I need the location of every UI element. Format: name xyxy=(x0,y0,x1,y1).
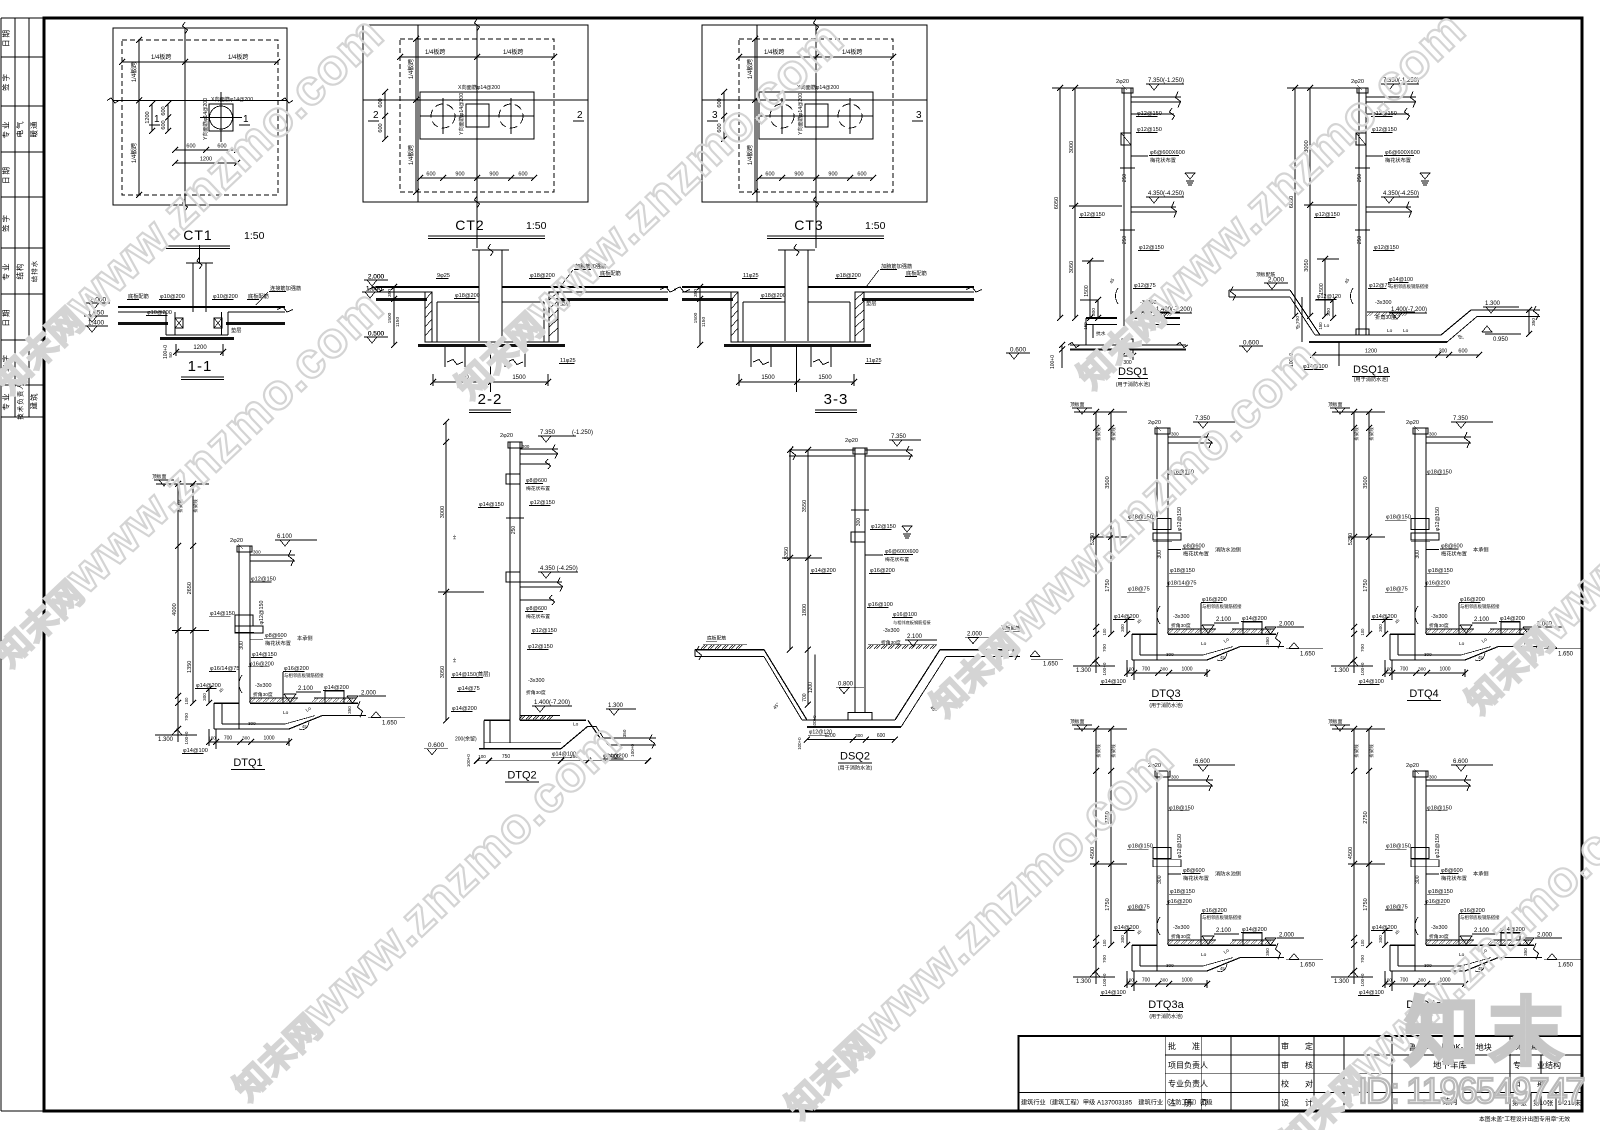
watermark band 2 xyxy=(439,10,854,408)
DTQ3 stepped bottom xyxy=(1207,647,1240,660)
DTQ4 level 1.300 left xyxy=(1331,665,1373,667)
CT3 pile circles xyxy=(770,104,794,128)
svg-text:φ14@150(首层): φ14@150(首层) xyxy=(452,670,491,678)
watermark band 9 xyxy=(1449,325,1600,723)
section 3-3 level marks xyxy=(364,279,388,281)
svg-text:100: 100 xyxy=(1384,978,1392,983)
svg-text:2.100: 2.100 xyxy=(1216,617,1232,623)
svg-text:2750: 2750 xyxy=(1363,811,1369,823)
svg-text:给排水: 给排水 xyxy=(30,260,39,283)
DTQ3a 300 marker xyxy=(1153,866,1172,868)
left revision strip table xyxy=(1,17,44,19)
DTQ4a footing left wall xyxy=(1389,945,1391,971)
svg-text:100+0: 100+0 xyxy=(184,731,189,744)
section 3-3 pile stubs xyxy=(750,347,752,367)
svg-text:2φ20: 2φ20 xyxy=(500,433,513,439)
svg-text:100: 100 xyxy=(478,754,486,759)
svg-text:300: 300 xyxy=(1415,550,1421,559)
svg-text:φ18@150: φ18@150 xyxy=(1428,889,1453,895)
DSQ1a left slope xyxy=(1290,290,1320,335)
section 3-3 pit walls hatched xyxy=(731,292,738,342)
svg-text:4500: 4500 xyxy=(1348,847,1354,859)
DSQ2 level 1.650 right xyxy=(1030,651,1040,657)
svg-text:φ16@200: φ16@200 xyxy=(1202,597,1227,603)
svg-text:φ18@200: φ18@200 xyxy=(455,293,480,299)
DSQ2 main slabs xyxy=(695,649,764,651)
svg-text:φ16@100: φ16@100 xyxy=(868,602,893,608)
svg-text:顶板配筋: 顶板配筋 xyxy=(1256,271,1275,278)
svg-text:300: 300 xyxy=(242,736,250,741)
svg-text:φ14@200: φ14@200 xyxy=(811,568,836,574)
svg-text:Lo: Lo xyxy=(1201,952,1207,958)
DSQ1a level 0.950 xyxy=(1482,326,1492,332)
svg-text:6.100: 6.100 xyxy=(277,534,293,540)
section 3-3 waterproof hatch xyxy=(682,298,733,301)
DTQ3 300 marker xyxy=(1153,540,1172,542)
title block outer frame xyxy=(1019,1036,1582,1111)
soil hatch at base level xyxy=(1367,312,1371,316)
left secondary dimension line 3000/3050 xyxy=(1074,88,1076,318)
wall footing box xyxy=(1122,339,1133,345)
svg-text:1500: 1500 xyxy=(1084,285,1090,297)
svg-text:100+0: 100+0 xyxy=(1360,973,1365,986)
DTQ4a base slab top xyxy=(1390,944,1415,946)
svg-text:φ6@600X600: φ6@600X600 xyxy=(1385,150,1420,156)
DSQ1a pit bottom xyxy=(1315,334,1441,336)
svg-text:φ8@600: φ8@600 xyxy=(1441,868,1463,874)
svg-text:300: 300 xyxy=(1160,667,1168,672)
svg-text:与相邻底板钢筋搭接: 与相邻底板钢筋搭接 xyxy=(1389,283,1429,290)
svg-text:1200: 1200 xyxy=(193,345,207,351)
DTQ2 anchor mid xyxy=(506,572,520,582)
svg-text:7.350: 7.350 xyxy=(891,434,907,440)
svg-text:2.000: 2.000 xyxy=(368,274,385,281)
wall detail DTQ1 wall xyxy=(238,546,240,729)
svg-text:300: 300 xyxy=(855,733,863,738)
svg-text:φ14@150: φ14@150 xyxy=(252,652,277,658)
svg-text:-3x300: -3x300 xyxy=(1173,925,1189,931)
left main dimension line 6050 xyxy=(1294,88,1296,316)
water table symbol xyxy=(1420,173,1430,179)
svg-text:1/4板跨: 1/4板跨 xyxy=(151,53,171,61)
svg-text:750: 750 xyxy=(502,754,511,760)
svg-text:φ14@100: φ14@100 xyxy=(1101,679,1126,685)
CT2 pile circles xyxy=(431,104,455,128)
svg-text:700: 700 xyxy=(224,736,233,742)
svg-text:底板配筋: 底板配筋 xyxy=(906,269,927,277)
svg-text:350: 350 xyxy=(347,706,352,714)
svg-text:Lo: Lo xyxy=(1387,328,1393,334)
section 2-2 waterproof hatch xyxy=(376,298,427,301)
CT3 left dimension 1/4 xyxy=(754,39,756,192)
svg-text:φ12@150: φ12@150 xyxy=(1139,245,1164,251)
svg-text:1.300: 1.300 xyxy=(1334,979,1350,985)
DTQ4a wall top cap xyxy=(1413,771,1428,777)
DTQ1 bottom dims xyxy=(209,741,289,743)
svg-text:700: 700 xyxy=(1400,667,1409,673)
svg-text:350: 350 xyxy=(622,729,627,737)
svg-text:1750: 1750 xyxy=(1363,898,1369,910)
base slab xyxy=(1086,317,1117,319)
svg-text:3-3: 3-3 xyxy=(824,391,849,408)
svg-text:700: 700 xyxy=(1400,978,1409,984)
svg-text:φ18@75: φ18@75 xyxy=(1386,587,1408,593)
section 2-2 pit bottom xyxy=(425,341,558,343)
level 0.600 xyxy=(1006,352,1030,354)
svg-text:Lo: Lo xyxy=(1201,641,1207,647)
DTQ3a stepped bottom xyxy=(1207,958,1240,971)
DSQ2 top slabs xyxy=(789,449,855,451)
svg-text:1150: 1150 xyxy=(701,317,707,328)
section 3-3 top slab xyxy=(682,286,785,288)
svg-text:折角30度: 折角30度 xyxy=(1429,933,1449,940)
CT2 left dimension 1/4 xyxy=(415,39,417,192)
250 marker lower xyxy=(1355,229,1370,231)
section 1-1 waterproof hatch band xyxy=(118,322,168,325)
svg-text:(用于消防水池): (用于消防水池) xyxy=(1149,702,1183,709)
svg-text:知末网www.znzmo.com: 知末网www.znzmo.com xyxy=(439,10,854,408)
svg-text:1.650: 1.650 xyxy=(1300,652,1316,658)
svg-text:600: 600 xyxy=(765,172,774,178)
svg-text:折梁线: 折梁线 xyxy=(1110,744,1117,758)
DSQ1a right slab xyxy=(1471,309,1540,311)
svg-text:折角30度: 折角30度 xyxy=(1171,933,1191,940)
svg-text:1.650: 1.650 xyxy=(366,286,383,293)
svg-text:700: 700 xyxy=(1295,316,1301,324)
svg-text:1.300: 1.300 xyxy=(158,737,174,743)
svg-text:梅花状布置: 梅花状布置 xyxy=(1441,874,1467,882)
svg-text:Y向面筋φ14@200: Y向面筋φ14@200 xyxy=(201,98,209,140)
DSQ2 footing box xyxy=(848,713,872,720)
svg-text:300: 300 xyxy=(253,550,261,555)
svg-text:900: 900 xyxy=(828,172,837,178)
pit below wall xyxy=(1085,318,1087,345)
DTQ1 level 1.650 right xyxy=(368,717,405,719)
svg-text:批 准: 批 准 xyxy=(1168,1041,1200,1051)
svg-text:2.000: 2.000 xyxy=(967,632,983,638)
svg-text:日期: 日期 xyxy=(2,28,11,47)
svg-text:φ12@150: φ12@150 xyxy=(1080,212,1105,218)
CT2 inner dashed boundary xyxy=(400,39,554,192)
svg-text:本承侧: 本承侧 xyxy=(1473,546,1489,554)
wall detail DTQ4 wall xyxy=(1414,428,1416,660)
svg-text:1:50: 1:50 xyxy=(526,220,547,232)
DTQ4 left dim lines xyxy=(1353,412,1355,673)
svg-text:φ14@200: φ14@200 xyxy=(452,706,477,712)
svg-text:700: 700 xyxy=(1102,644,1108,652)
svg-text:φ18@150: φ18@150 xyxy=(1170,568,1195,574)
svg-text:300: 300 xyxy=(239,641,245,650)
svg-text:350: 350 xyxy=(1265,948,1270,956)
svg-text:1-1: 1-1 xyxy=(188,358,213,375)
DSQ1a level 2.000 left xyxy=(1264,282,1288,284)
DTQ3 left dim lines xyxy=(1095,412,1097,673)
svg-text:Lo: Lo xyxy=(1223,636,1231,644)
svg-text:φ12@120: φ12@120 xyxy=(1317,294,1341,300)
wall detail DTQ3a wall xyxy=(1156,771,1158,971)
svg-text:900: 900 xyxy=(489,172,498,178)
DSQ1a bottom dims xyxy=(1313,354,1479,356)
svg-text:350: 350 xyxy=(693,289,699,297)
svg-text:100: 100 xyxy=(1126,667,1134,672)
svg-text:5350: 5350 xyxy=(784,547,790,559)
DTQ4 300 marker xyxy=(1411,540,1430,542)
svg-text:折角30度: 折角30度 xyxy=(1171,622,1191,629)
svg-text:梅花状布置: 梅花状布置 xyxy=(1385,156,1411,164)
DTQ4a footing bottom xyxy=(1390,970,1465,972)
svg-text:顶板面: 顶板面 xyxy=(1070,401,1085,408)
svg-text:2φ20: 2φ20 xyxy=(1406,420,1419,426)
svg-text:φ18/14@75: φ18/14@75 xyxy=(1167,581,1197,587)
CT3 left 600 dims xyxy=(723,92,725,139)
CT2 top dimension xyxy=(400,56,554,58)
svg-text:φ12@150: φ12@150 xyxy=(1137,111,1162,117)
svg-text:5250: 5250 xyxy=(1348,533,1354,545)
svg-text:φ14@200: φ14@200 xyxy=(196,683,221,689)
svg-text:600: 600 xyxy=(378,98,384,107)
CT2 left 600 dims xyxy=(384,92,386,139)
svg-text:250: 250 xyxy=(1122,174,1128,183)
section 2-2 pile stubs xyxy=(444,347,446,367)
DSQ2 wall xyxy=(854,448,856,713)
svg-text:知末: 知末 xyxy=(1405,991,1573,1074)
DTQ2 left dim lines xyxy=(445,422,447,720)
svg-text:3050: 3050 xyxy=(440,666,446,678)
section 3-3 left break xyxy=(674,287,690,292)
svg-text:200(余留): 200(余留) xyxy=(455,735,477,742)
svg-text:2.100: 2.100 xyxy=(1474,617,1490,623)
svg-text:顶板面: 顶板面 xyxy=(1328,718,1343,725)
DTQ2 250 marker xyxy=(506,517,524,519)
svg-text:1750: 1750 xyxy=(1105,898,1111,910)
svg-text:φ18@150: φ18@150 xyxy=(1169,805,1194,811)
DTQ4 base slab top xyxy=(1390,633,1415,635)
svg-text:1:50: 1:50 xyxy=(244,230,265,242)
section 2-2 pit walls hatched xyxy=(425,292,432,342)
svg-text:250: 250 xyxy=(1357,174,1363,183)
CT2 bottom dimensions xyxy=(420,177,534,179)
svg-text:1.300: 1.300 xyxy=(1485,301,1501,307)
svg-text:梅花状布置: 梅花状布置 xyxy=(1183,550,1209,558)
svg-text:Lo: Lo xyxy=(1403,328,1409,334)
svg-text:250: 250 xyxy=(511,526,517,535)
DTQ4a level 1.300 left xyxy=(1331,976,1373,978)
watermark band 6 xyxy=(217,712,632,1110)
svg-text:1500: 1500 xyxy=(693,312,699,323)
svg-text:100: 100 xyxy=(1360,939,1365,947)
left secondary dimension line 3000/3050 xyxy=(1309,88,1311,316)
svg-text:φ18@75: φ18@75 xyxy=(1128,587,1150,593)
CT1 column axis lines xyxy=(184,28,186,205)
anchor box on wall xyxy=(1121,133,1131,145)
bottom slab lines xyxy=(1070,344,1186,346)
svg-text:φ12@150: φ12@150 xyxy=(1137,127,1162,133)
DTQ1 overhead line level xyxy=(156,483,209,485)
svg-text:3500: 3500 xyxy=(1105,476,1111,488)
DSQ2 pit bottom xyxy=(802,719,895,721)
svg-text:Lo: Lo xyxy=(283,710,289,716)
svg-text:暖通: 暖通 xyxy=(29,121,39,138)
svg-text:300: 300 xyxy=(202,693,207,701)
water table symbol xyxy=(1185,173,1195,179)
section 1-1 bottom dimension 1200 xyxy=(176,351,223,353)
DTQ3 level 1.300 left xyxy=(1073,665,1115,667)
svg-text:100: 100 xyxy=(1102,939,1107,947)
DTQ4 anchor box xyxy=(1411,519,1429,530)
svg-text:校 对: 校 对 xyxy=(1281,1079,1313,1089)
svg-text:φ18@75: φ18@75 xyxy=(1386,905,1408,911)
svg-text:φ14@200: φ14@200 xyxy=(1114,925,1139,931)
svg-text:φ12@150: φ12@150 xyxy=(1435,834,1441,858)
DTQ2 top cap xyxy=(508,442,522,448)
svg-text:折梁线: 折梁线 xyxy=(1368,744,1375,758)
svg-text:项目负责人: 项目负责人 xyxy=(1168,1060,1208,1070)
section 1-1 pit bottom xyxy=(166,334,228,336)
svg-text:签字: 签字 xyxy=(1,213,11,232)
svg-text:3500: 3500 xyxy=(1363,476,1369,488)
DTQ3a base slab top xyxy=(1132,944,1157,946)
svg-text:φ16@200: φ16@200 xyxy=(870,568,895,574)
svg-text:H-: H- xyxy=(452,657,457,662)
svg-text:CT2: CT2 xyxy=(455,217,484,233)
svg-text:1750: 1750 xyxy=(1105,579,1111,591)
svg-text:300: 300 xyxy=(248,721,256,726)
svg-text:与相邻底板钢筋搭接: 与相邻底板钢筋搭接 xyxy=(1460,603,1500,610)
DTQ2 base slab xyxy=(519,715,523,719)
section 1-1 floor slab xyxy=(118,306,285,308)
svg-text:梅花状布置: 梅花状布置 xyxy=(526,613,550,620)
svg-text:梅花状布置: 梅花状布置 xyxy=(526,485,550,492)
svg-text:2φ20: 2φ20 xyxy=(845,438,858,444)
svg-text:700: 700 xyxy=(1142,978,1151,984)
svg-text:1200: 1200 xyxy=(1365,349,1377,355)
svg-text:DTQ3: DTQ3 xyxy=(1151,688,1180,700)
svg-text:梅花状布置: 梅花状布置 xyxy=(265,639,291,647)
DTQ1 level 1.300 left xyxy=(155,734,197,736)
DSQ1a dim 350 right xyxy=(1528,310,1530,334)
DTQ4a top right slab xyxy=(1426,779,1471,781)
svg-text:φ18@200: φ18@200 xyxy=(761,293,786,299)
svg-text:11φ25: 11φ25 xyxy=(866,358,882,364)
svg-text:2.000: 2.000 xyxy=(361,691,377,697)
DTQ4a anchor box xyxy=(1411,848,1429,859)
svg-text:350: 350 xyxy=(387,289,393,297)
svg-text:φ6@600X600: φ6@600X600 xyxy=(885,549,919,555)
svg-text:消防水池侧: 消防水池侧 xyxy=(1215,546,1241,554)
section 2-2 column xyxy=(478,250,480,341)
svg-text:φ12@150: φ12@150 xyxy=(871,524,896,530)
svg-text:折梁线: 折梁线 xyxy=(1110,427,1117,441)
DTQ2 footing bottom xyxy=(479,748,561,750)
DTQ4a 300 marker xyxy=(1411,866,1430,868)
svg-text:100: 100 xyxy=(1384,667,1392,672)
svg-text:1.650: 1.650 xyxy=(1558,652,1574,658)
svg-text:900: 900 xyxy=(455,172,464,178)
svg-text:建筑行业（建筑工程）甲级 A137003185 建筑行业（人: 建筑行业（建筑工程）甲级 A137003185 建筑行业（人防工程）乙级 xyxy=(1021,1099,1213,1107)
svg-text:45: 45 xyxy=(1109,277,1116,284)
svg-text:-3x300: -3x300 xyxy=(528,678,544,684)
svg-text:φ14@200: φ14@200 xyxy=(1372,925,1397,931)
svg-text:梅花状布置: 梅花状布置 xyxy=(1441,550,1467,558)
svg-text:1.650: 1.650 xyxy=(1558,963,1574,969)
DTQ3 base slab top xyxy=(1132,633,1157,635)
wall vertical lines xyxy=(1358,88,1360,326)
DTQ4 level 1.650 right xyxy=(1544,648,1581,650)
DTQ2 level 0.600 xyxy=(424,748,448,750)
svg-text:100+0: 100+0 xyxy=(1102,973,1107,986)
top right slab xyxy=(1131,96,1181,98)
svg-text:600: 600 xyxy=(161,120,167,129)
svg-text:知末网www.znzmo.com: 知末网www.znzmo.com xyxy=(1061,0,1476,398)
svg-text:日期: 日期 xyxy=(2,308,11,327)
svg-text:100: 100 xyxy=(1360,628,1365,636)
250 marker lower xyxy=(1120,229,1135,231)
svg-text:折角30度: 折角30度 xyxy=(881,639,901,646)
svg-text:φ14@150: φ14@150 xyxy=(210,611,235,617)
svg-text:3050: 3050 xyxy=(1304,259,1310,271)
svg-text:0.800: 0.800 xyxy=(838,682,854,688)
svg-text:φ14@100: φ14@100 xyxy=(1389,277,1413,283)
svg-text:2φ20: 2φ20 xyxy=(230,538,243,544)
svg-text:φ8@600: φ8@600 xyxy=(265,633,287,639)
DTQ3a wall top cap xyxy=(1155,771,1170,777)
section 2-2 right break xyxy=(660,287,676,292)
section 2-2 level marks xyxy=(364,279,388,281)
svg-text:Lo: Lo xyxy=(1324,323,1330,329)
svg-text:2φ20: 2φ20 xyxy=(1148,420,1161,426)
left 1500 dimension line xyxy=(1089,261,1091,318)
svg-text:300: 300 xyxy=(1415,875,1421,884)
svg-text:(用于消防水池): (用于消防水池) xyxy=(1116,380,1151,388)
svg-text:6.600: 6.600 xyxy=(1453,759,1469,765)
svg-text:4.350 (-4.250): 4.350 (-4.250) xyxy=(540,566,578,572)
svg-text:与相邻底板钢筋搭接: 与相邻底板钢筋搭接 xyxy=(893,619,932,626)
DSQ2 anchor box xyxy=(851,532,865,542)
svg-text:折梁线: 折梁线 xyxy=(1095,744,1102,758)
svg-text:700: 700 xyxy=(1102,955,1108,963)
section 1-1 column xyxy=(192,263,194,312)
svg-text:-3x300: -3x300 xyxy=(1173,614,1189,620)
svg-text:900: 900 xyxy=(794,172,803,178)
DTQ4a bottom dims xyxy=(1385,983,1465,985)
DSQ2 wall 300 marker xyxy=(851,509,869,511)
CT1 column dimensions xyxy=(167,104,169,131)
svg-text:1000: 1000 xyxy=(1439,667,1450,673)
svg-text:1500: 1500 xyxy=(818,375,832,381)
CT1 inner dashed boundary xyxy=(122,40,278,195)
DSQ2 left slope xyxy=(764,650,807,720)
svg-text:φ12@150: φ12@150 xyxy=(251,577,276,583)
svg-text:知末网www.znzmo.com: 知末网www.znzmo.com xyxy=(217,712,632,1110)
svg-text:审 定: 审 定 xyxy=(1281,1041,1313,1051)
anchor box on wall xyxy=(1356,133,1366,145)
svg-text:-3x300: -3x300 xyxy=(1431,925,1447,931)
250 marker mid xyxy=(1120,167,1135,169)
svg-text:DSQ1a: DSQ1a xyxy=(1353,364,1390,376)
svg-text:折角30度: 折角30度 xyxy=(1429,622,1449,629)
svg-text:1/4板跨: 1/4板跨 xyxy=(228,53,248,61)
svg-text:300: 300 xyxy=(1120,935,1125,943)
svg-text:1200: 1200 xyxy=(808,682,814,693)
svg-text:1000: 1000 xyxy=(1181,667,1192,673)
svg-text:100: 100 xyxy=(1102,628,1107,636)
CT3 pile cap rectangle xyxy=(759,92,873,139)
DTQ1 base slab top xyxy=(214,702,239,704)
svg-text:φ12@150: φ12@150 xyxy=(1435,507,1441,531)
svg-text:φ8@600: φ8@600 xyxy=(526,606,547,612)
svg-text:X向面筋φ14@200: X向面筋φ14@200 xyxy=(458,83,500,91)
svg-text:φ18@200: φ18@200 xyxy=(836,273,861,279)
